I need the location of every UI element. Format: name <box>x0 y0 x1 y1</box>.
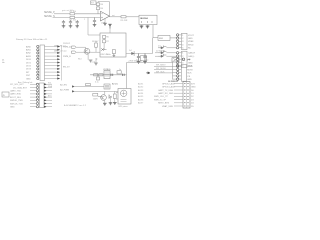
svg-text:MOSI: MOSI <box>187 69 193 71</box>
svg-text:2: 2 <box>84 19 85 21</box>
transistor Q3 inside U2 <box>101 48 111 56</box>
resistor R12 <box>93 93 98 100</box>
capacitor C7 <box>136 54 140 62</box>
diode D4 <box>129 50 134 56</box>
svg-text:AUX4: AUX4 <box>138 92 144 95</box>
svg-text:SPI_MISO: SPI_MISO <box>156 65 166 67</box>
resistor R6 <box>103 35 110 38</box>
wire <box>95 41 97 52</box>
ground <box>146 26 150 28</box>
connector J4 body <box>181 65 186 82</box>
crystal Y1 <box>172 58 179 62</box>
svg-text:VOUT: VOUT <box>188 35 195 37</box>
connector J6 body <box>183 82 190 109</box>
svg-text:1u: 1u <box>146 59 148 61</box>
wire into U2 from op-amp input node <box>88 18 100 36</box>
wire <box>126 16 139 18</box>
svg-text:UART_RX_DBG: UART_RX_DBG <box>158 92 174 95</box>
diode D3 <box>158 54 166 58</box>
svg-text:NRST_BTN: NRST_BTN <box>158 103 169 105</box>
IC U3 <box>103 69 111 79</box>
svg-text:1M: 1M <box>100 8 103 10</box>
net flag <box>72 51 77 53</box>
svg-text:AUX7: AUX7 <box>138 102 144 105</box>
wire buzzer pins <box>116 93 118 100</box>
connector J2 pin 1 <box>176 34 194 37</box>
wire <box>75 86 104 88</box>
resistor R1 <box>70 11 76 15</box>
resistor R5 <box>121 16 128 22</box>
svg-text:ISO124: ISO124 <box>140 17 148 20</box>
svg-text:GND: GND <box>191 87 196 89</box>
capacitor C2 <box>69 20 72 26</box>
filter F1 box <box>158 35 170 40</box>
wire <box>154 71 173 73</box>
connector J4 pin 2 <box>173 68 193 71</box>
svg-text:AUX5: AUX5 <box>138 95 144 98</box>
svg-text:SWD_IO_TP: SWD_IO_TP <box>154 99 167 101</box>
resistor R8 <box>92 41 99 47</box>
wire feedback <box>98 2 110 17</box>
svg-text:GPIO13_AUX: GPIO13_AUX <box>162 86 176 89</box>
ground <box>89 60 93 62</box>
diode D2 <box>156 49 166 54</box>
wire <box>110 98 112 103</box>
capacitor C1 <box>62 20 65 26</box>
net tie box <box>91 1 97 5</box>
ground <box>93 25 97 27</box>
net flag <box>72 46 77 48</box>
power rail up <box>127 63 173 75</box>
wire <box>170 37 176 39</box>
svg-text:PWM_B: PWM_B <box>63 56 71 58</box>
connector J1 body <box>40 45 45 81</box>
bus line right of J1 <box>61 46 63 81</box>
wire <box>97 6 99 7</box>
ground <box>113 103 117 105</box>
resistor R7 <box>103 40 110 43</box>
svg-text:DIO0: DIO0 <box>26 59 32 61</box>
module U5 isolator box <box>139 15 157 24</box>
svg-text:GND: GND <box>188 38 193 40</box>
svg-text:BZ_PWM: BZ_PWM <box>60 90 69 92</box>
svg-text:R5 49R: R5 49R <box>121 20 128 22</box>
connector J2 pin 4 <box>176 43 194 46</box>
bottom input net label 2 <box>60 90 75 93</box>
small box <box>141 56 147 61</box>
svg-text:SWDIO_TMS: SWDIO_TMS <box>10 100 23 102</box>
svg-text:0.1u: 0.1u <box>95 82 99 84</box>
resistor R4 <box>96 7 103 10</box>
svg-text:I2C_SCL_EXT: I2C_SCL_EXT <box>10 84 24 86</box>
wire <box>54 13 70 15</box>
connector J4 pin 1 <box>173 65 193 68</box>
wire <box>53 17 70 19</box>
connector J2 body <box>182 33 188 49</box>
bottom input net label 1 <box>60 85 75 88</box>
net label row Q1 <box>54 44 66 47</box>
svg-text:VBAT_SNS: VBAT_SNS <box>162 105 173 108</box>
svg-text:1M: 1M <box>100 4 103 6</box>
svg-text:SCK: SCK <box>187 73 192 75</box>
net label rows into J4 <box>154 65 173 67</box>
ground <box>103 23 107 25</box>
wire <box>166 52 176 54</box>
wire <box>86 47 89 60</box>
capacitor C3 <box>76 20 79 26</box>
text <box>112 84 118 86</box>
wire <box>109 29 111 34</box>
svg-text:UART_RXD: UART_RXD <box>10 93 22 96</box>
svg-text:AUX3: AUX3 <box>138 89 144 92</box>
svg-text:RST: RST <box>26 75 31 77</box>
resistor R11 <box>86 84 91 86</box>
svg-text:VREF: VREF <box>188 41 194 43</box>
wire <box>95 58 97 63</box>
connector J2 pin 3 <box>176 40 194 43</box>
svg-text:DIO2: DIO2 <box>26 66 32 68</box>
wire <box>75 17 100 19</box>
svg-text:+3V3 VDD_IO: +3V3 VDD_IO <box>128 61 142 63</box>
wire op-amp output <box>110 16 122 18</box>
wire module pins down <box>142 25 154 38</box>
net label VCC <box>128 61 142 63</box>
svg-text:BZ1 piezo: BZ1 piezo <box>119 106 129 108</box>
svg-text:MISO: MISO <box>187 66 193 68</box>
svg-text:BZ_EN: BZ_EN <box>60 85 67 87</box>
svg-text:A SCHEMATIC rev 1.2: A SCHEMATIC rev 1.2 <box>64 104 87 107</box>
node IN- label <box>44 16 55 18</box>
wire <box>154 68 173 70</box>
connector J3 pin 3 <box>176 58 191 61</box>
svg-text:I2C_SDA_EXT: I2C_SDA_EXT <box>13 86 28 89</box>
svg-text:GND: GND <box>26 78 31 80</box>
capacitor C8 <box>143 54 148 62</box>
svg-text:fs adj: fs adj <box>90 62 95 64</box>
net label row Q2 <box>54 49 67 52</box>
IC U2 box <box>100 33 126 57</box>
transistor Q1 <box>63 43 90 61</box>
svg-text:R8 4k7: R8 4k7 <box>92 41 99 43</box>
wire <box>75 90 118 92</box>
connector J6 rows <box>154 82 196 107</box>
svg-text:CAN_L: CAN_L <box>188 55 196 58</box>
connector J3 pin 5 <box>176 64 192 67</box>
bottom right connector J6 title <box>168 81 178 83</box>
ground <box>103 103 107 105</box>
resistor R9 <box>94 74 98 76</box>
wire <box>103 38 105 50</box>
svg-text:2N7002: 2N7002 <box>63 43 71 45</box>
sheet note text <box>64 104 87 107</box>
net flag <box>146 72 150 74</box>
capacitor C4 <box>93 18 96 25</box>
capacitor C9 <box>117 69 124 76</box>
connector J3 pin 4 <box>176 61 193 64</box>
op-amp U1 <box>101 11 110 24</box>
svg-text:R14: R14 <box>78 59 81 61</box>
text node labels center low <box>90 58 99 64</box>
connector J2 pin 5 <box>176 47 191 50</box>
ferrite FB2 <box>111 74 113 76</box>
connector J3 pin 2 <box>176 55 195 58</box>
connector J3 pin 1 <box>176 52 195 55</box>
connector J4 pin top <box>182 58 191 61</box>
svg-text:AUX6: AUX6 <box>138 98 144 101</box>
ground above U2 <box>108 24 112 28</box>
ground <box>94 63 98 65</box>
ground <box>75 26 79 28</box>
resistor R10 <box>99 74 103 76</box>
svg-text:hdr: hdr <box>2 61 5 64</box>
connector J1 pin rows <box>26 45 71 80</box>
svg-text:Primary I/O Conn 100 mil hdr: Primary I/O Conn 100 mil hdr x 11 <box>16 38 48 41</box>
text aux header title <box>18 81 33 84</box>
svg-text:gain set 100x: gain set 100x <box>62 9 74 12</box>
wire op-amp power <box>104 19 106 23</box>
connector J1 designator <box>2 60 5 65</box>
component inside U2 <box>112 50 115 57</box>
ground <box>143 62 147 64</box>
resistor R2 <box>70 16 76 21</box>
svg-text:GND: GND <box>187 79 192 81</box>
svg-text:SWD_CLK_TP: SWD_CLK_TP <box>154 96 168 98</box>
wire <box>104 91 106 103</box>
label text <box>62 9 74 12</box>
capacitor C10 below wire <box>95 75 100 84</box>
connector J4 pin 4 <box>173 75 191 78</box>
svg-text:U3 REG: U3 REG <box>103 69 111 71</box>
ground <box>69 26 73 28</box>
wire <box>75 13 100 15</box>
resistor R13 <box>113 94 116 98</box>
svg-text:SCL: SCL <box>48 83 52 85</box>
svg-text:SPI_SCK: SPI_SCK <box>156 71 165 73</box>
svg-text:GND: GND <box>188 62 193 64</box>
connector J5 body <box>40 83 45 108</box>
svg-text:BT0: BT0 <box>48 95 51 97</box>
svg-text:GPIO12_AUX: GPIO12_AUX <box>162 82 176 85</box>
svg-text:NC: NC <box>188 48 192 50</box>
connector J2 pin 2 <box>176 37 193 40</box>
svg-text:SHLD: SHLD <box>188 44 194 46</box>
svg-text:EN_5V: EN_5V <box>63 66 70 68</box>
power rail down <box>126 75 128 89</box>
svg-text:DIO3: DIO3 <box>26 69 32 71</box>
diode D1 <box>158 45 166 49</box>
svg-text:OSC 4MHz: OSC 4MHz <box>101 54 111 56</box>
wire from buzzer rows <box>138 82 144 104</box>
svg-text:1u: 1u <box>119 69 121 71</box>
wire <box>114 91 116 102</box>
svg-text:CAN_H: CAN_H <box>188 52 196 55</box>
svg-text:PWM_A: PWM_A <box>63 45 71 48</box>
wire U2 output <box>126 38 153 54</box>
svg-text:SENSE_P: SENSE_P <box>44 12 55 14</box>
transistor Q5 <box>109 95 112 99</box>
buzzer BZ1 <box>118 89 131 109</box>
wire <box>155 53 176 56</box>
ground <box>140 26 144 28</box>
transistor Q4 <box>98 95 106 101</box>
wire <box>166 47 176 49</box>
svg-text:AUX2: AUX2 <box>138 86 144 89</box>
svg-text:SWCLK_TCK: SWCLK_TCK <box>10 103 23 105</box>
svg-text:SPI_MOSI: SPI_MOSI <box>156 68 166 70</box>
svg-text:BOOT_SEL: BOOT_SEL <box>10 97 22 99</box>
ground <box>137 62 141 64</box>
svg-text:out: out <box>112 14 115 17</box>
ground <box>62 26 66 28</box>
wire to output filter <box>153 37 158 39</box>
svg-text:DIO1: DIO1 <box>26 62 32 64</box>
connector J4 pin 3 <box>173 72 193 75</box>
connector J3 body <box>182 51 188 67</box>
svg-text:100R: 100R <box>93 98 98 100</box>
svg-text:GND: GND <box>10 107 15 109</box>
wire <box>76 46 85 48</box>
title text top-left of connector <box>16 38 48 41</box>
svg-text:AUX1: AUX1 <box>138 82 144 85</box>
svg-text:UART_TX_DBG: UART_TX_DBG <box>158 89 173 92</box>
svg-text:D2 BAT54: D2 BAT54 <box>156 49 166 52</box>
wire bus vertical <box>172 62 174 80</box>
node IN+ label <box>44 12 55 14</box>
ground <box>109 103 113 105</box>
svg-text:UART_TXD: UART_TXD <box>10 90 21 93</box>
connector J5 label box <box>2 92 9 97</box>
wire <box>76 51 100 53</box>
node text <box>84 19 85 21</box>
connector J5 pin rows <box>10 83 53 109</box>
connector J4 pin 5 <box>173 78 193 81</box>
IC U4 <box>104 84 110 89</box>
resistor R3 <box>96 3 103 6</box>
svg-text:BZ drv: BZ drv <box>112 84 118 86</box>
lower center wire <box>90 74 127 76</box>
